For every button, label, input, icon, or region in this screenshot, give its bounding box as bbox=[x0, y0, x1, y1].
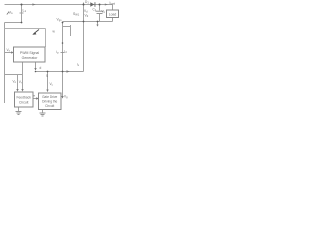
ground stub gate bbox=[42, 110, 44, 113]
wire gate drive vertical bbox=[62, 72, 64, 99]
svg-text:Driving the: Driving the bbox=[42, 100, 57, 104]
svg-text:PWM Signal: PWM Signal bbox=[20, 51, 39, 55]
capacitor C plates bbox=[96, 10, 104, 12]
load box bbox=[107, 10, 119, 18]
wire switch bottom tick bbox=[63, 26, 71, 28]
wire source right vertical bbox=[21, 5, 23, 23]
svg-text:C1: C1 bbox=[93, 8, 97, 13]
wire cap top bbox=[99, 5, 101, 11]
wire pwm to feedback vertical bbox=[22, 62, 24, 90]
battery tick bbox=[20, 12, 24, 14]
svg-text:is: is bbox=[77, 63, 80, 68]
svg-text:Vd: Vd bbox=[85, 14, 89, 19]
wire switch top bbox=[63, 21, 113, 23]
Vs arrow bbox=[7, 12, 9, 15]
wire pwm input stub bbox=[5, 52, 13, 54]
wire lower-left horizontal bbox=[5, 74, 23, 76]
svg-text:Vr: Vr bbox=[19, 80, 22, 85]
wire feedforward horizontal bbox=[5, 28, 46, 30]
wire source bottom bbox=[5, 22, 22, 24]
junction dots bbox=[21, 4, 101, 73]
svg-text:Vo: Vo bbox=[102, 10, 106, 15]
current sense tick bbox=[61, 52, 65, 54]
wire bus to gate box bbox=[47, 72, 49, 92]
svg-text:Vo: Vo bbox=[13, 80, 17, 85]
switch symbol bbox=[70, 25, 72, 36]
wire switch branch bbox=[62, 23, 64, 72]
svg-text:Circuit: Circuit bbox=[45, 104, 54, 108]
wire bus bbox=[36, 71, 84, 73]
svg-text:Vd: Vd bbox=[84, 9, 88, 14]
svg-text:ip: ip bbox=[57, 50, 60, 55]
wire top rail bbox=[5, 4, 113, 6]
arrowheads bbox=[11, 3, 108, 99]
svg-text:Vc: Vc bbox=[50, 82, 54, 87]
svg-text:Gate Drive: Gate Drive bbox=[42, 95, 57, 99]
svg-text:Vs: Vs bbox=[7, 48, 11, 53]
gate drive box bbox=[39, 93, 62, 110]
PWM box bbox=[14, 47, 46, 62]
svg-text:L1: L1 bbox=[23, 9, 27, 14]
wire pwm output stub bbox=[35, 62, 37, 70]
svg-text:d: d bbox=[40, 66, 42, 70]
svg-text:Load: Load bbox=[109, 13, 117, 17]
diode D1 bbox=[90, 2, 95, 7]
svg-text:id: id bbox=[65, 50, 68, 55]
wire sense stub bbox=[97, 22, 99, 26]
wire cap bottom bbox=[99, 14, 101, 22]
svg-text:Circuit: Circuit bbox=[19, 101, 28, 105]
wire Vo sense vertical bbox=[17, 75, 19, 90]
svg-text:Iload: Iload bbox=[110, 1, 116, 6]
svg-text:Vg: Vg bbox=[64, 95, 68, 100]
svg-text:w: w bbox=[53, 30, 56, 34]
wire left vertical bbox=[4, 23, 6, 104]
feedback box bbox=[15, 92, 34, 107]
svg-text:e: e bbox=[34, 94, 36, 98]
annotation arrow at pwm box bbox=[34, 30, 40, 34]
svg-text:D1: D1 bbox=[85, 0, 89, 5]
ground feedback bbox=[16, 111, 22, 113]
wire load bottom stub bbox=[112, 18, 114, 22]
svg-text:S: S bbox=[46, 74, 48, 78]
ground stub feedback bbox=[18, 107, 20, 111]
ground gate bbox=[40, 112, 46, 114]
svg-text:Feedback: Feedback bbox=[16, 96, 31, 100]
svg-text:Vgs: Vgs bbox=[57, 18, 63, 23]
svg-text:Vs: Vs bbox=[9, 10, 14, 16]
wire drain vertical bbox=[83, 3, 85, 72]
wire feedback to gate arrow bbox=[33, 98, 37, 100]
wire feedforward stub into pwm box bbox=[45, 29, 47, 48]
svg-text:Generator: Generator bbox=[22, 56, 39, 60]
svg-text:SW1: SW1 bbox=[73, 12, 80, 17]
wire load top stub bbox=[112, 5, 114, 11]
